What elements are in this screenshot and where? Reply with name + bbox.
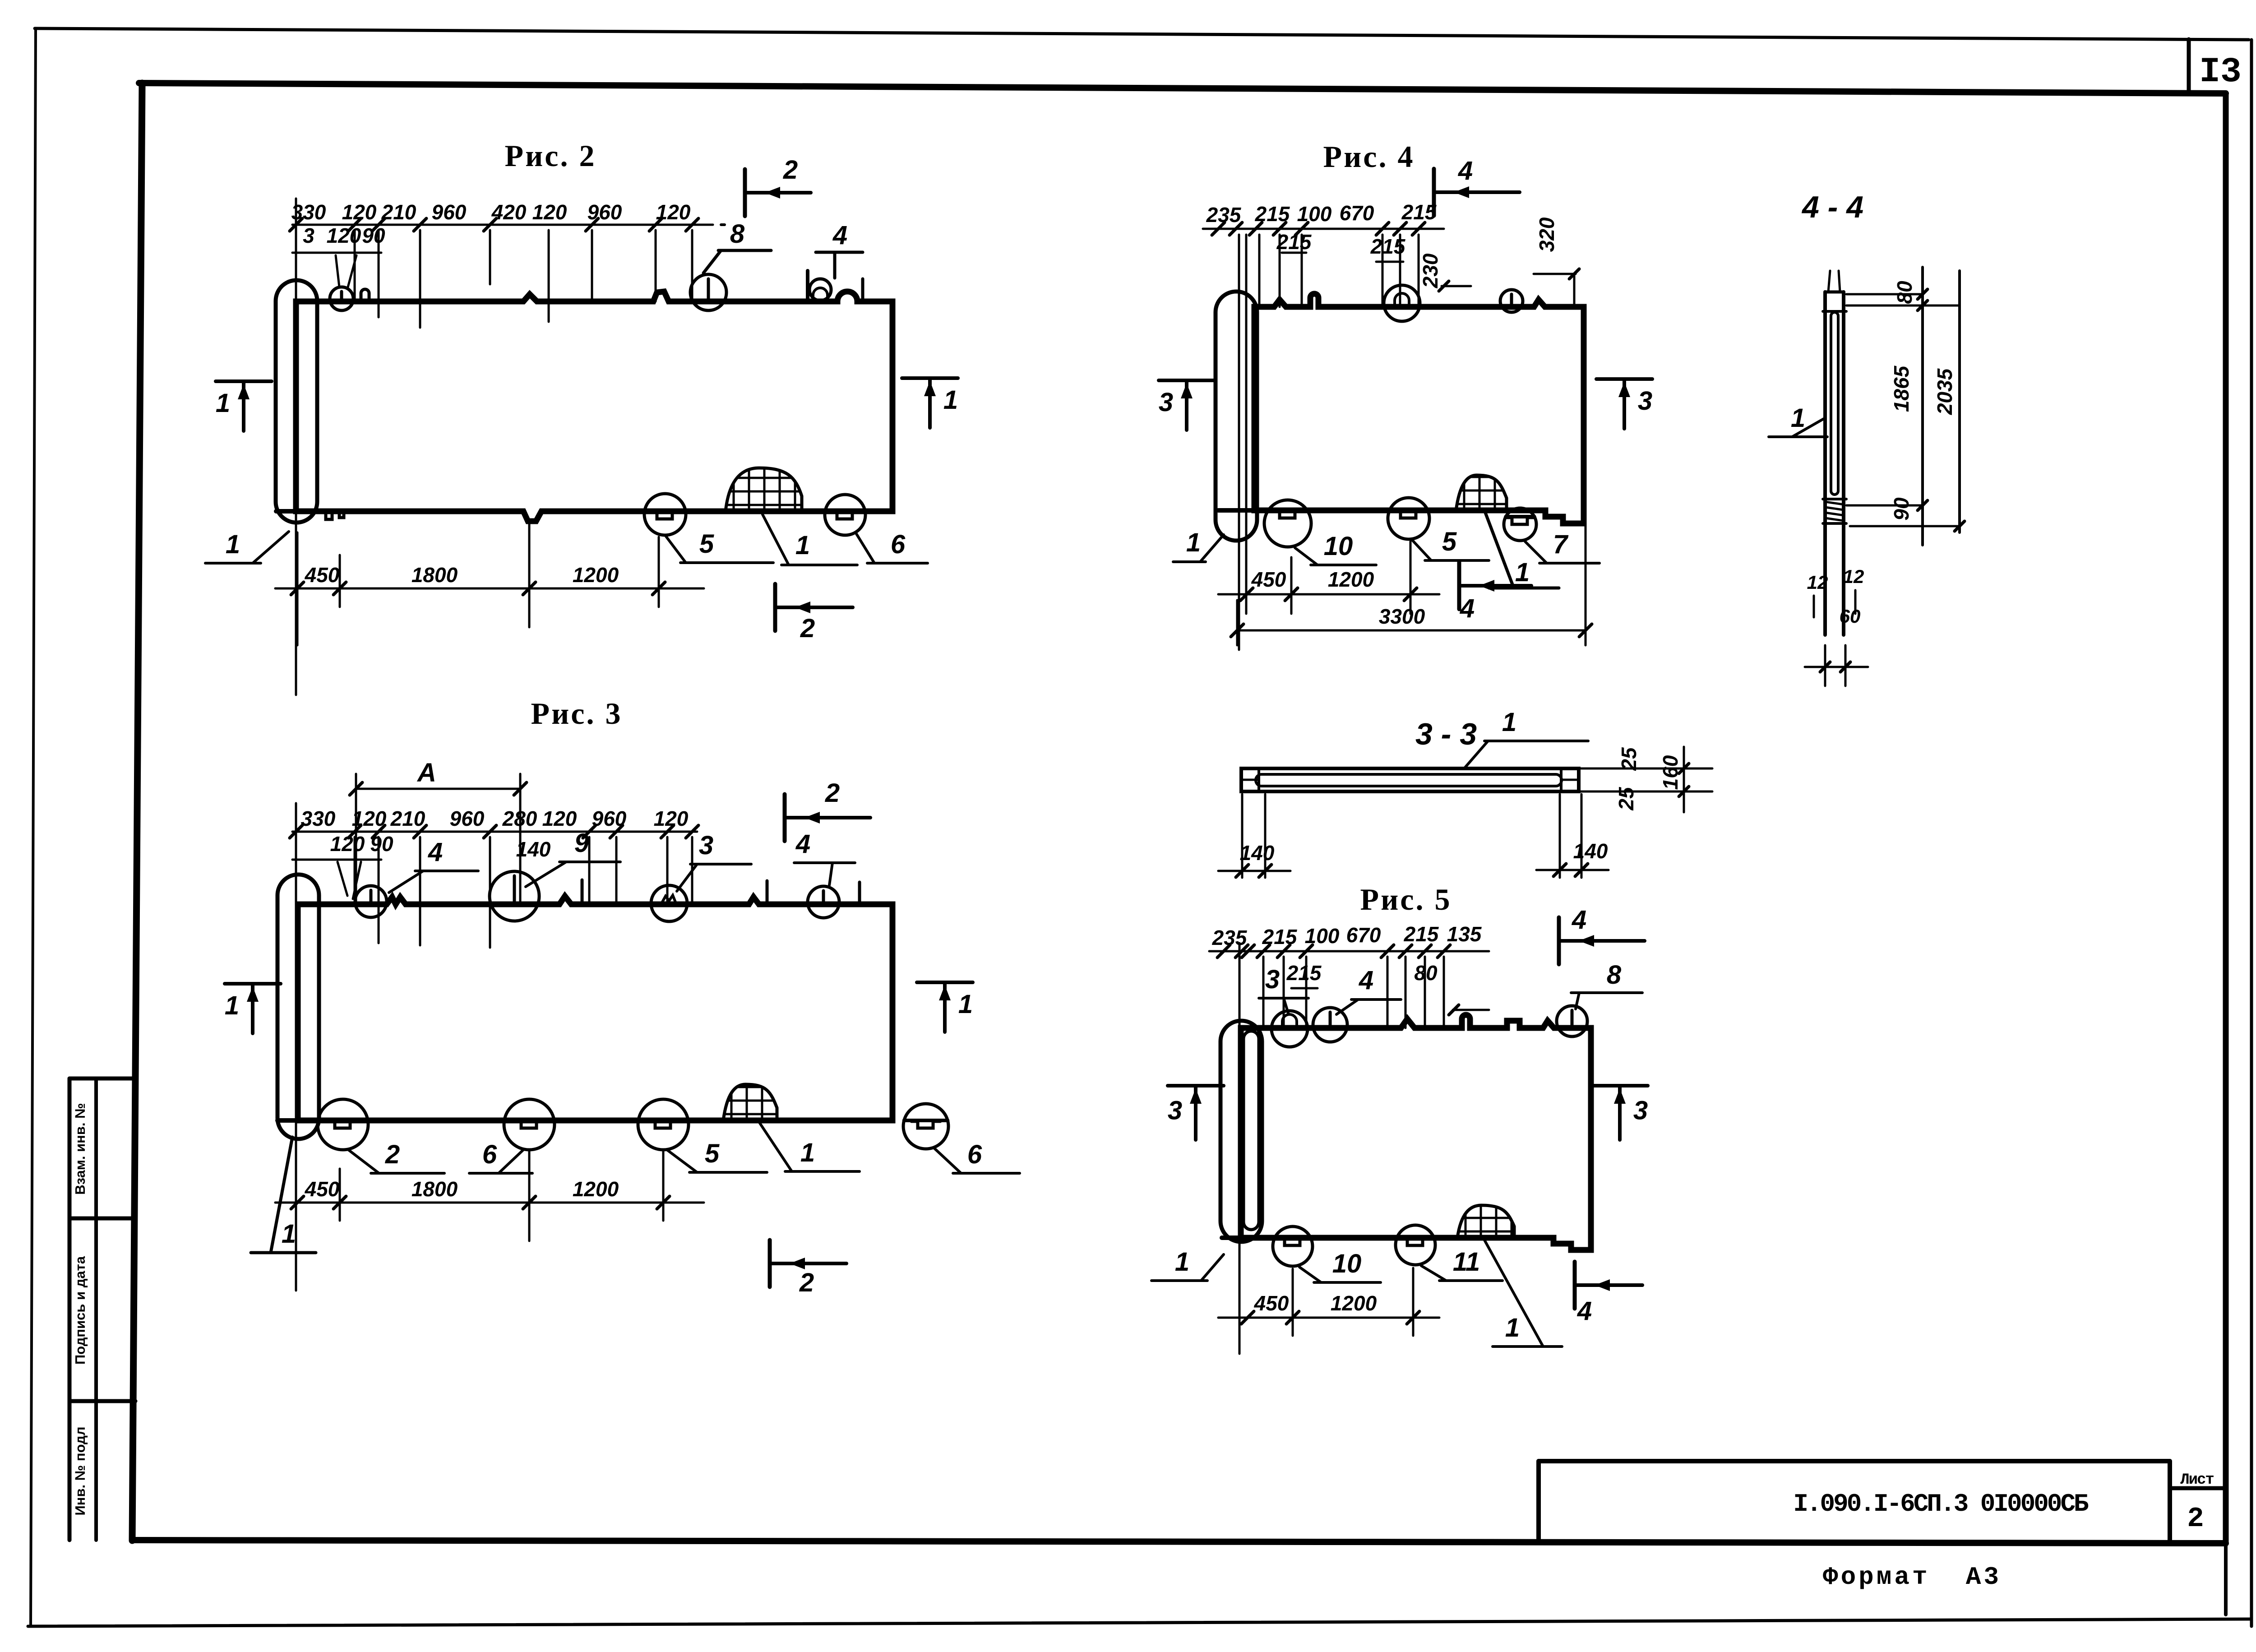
fig3 top circle 4a: [355, 886, 387, 917]
fig3 leader 1 hump: [758, 1120, 860, 1171]
svg-text:3: 3: [1265, 965, 1280, 994]
fig3 top circle 9: [490, 871, 539, 921]
fig3 section mark 2 top: [785, 778, 870, 841]
fig2 section mark 2 bottom: [775, 584, 853, 643]
svg-text:Лист: Лист: [2180, 1472, 2214, 1489]
fig4 crosshatch hump: [1456, 472, 1507, 510]
title block text 1.090.1-6СП.3 0I0000СБ: [1793, 1490, 2089, 1518]
sec44 dim verticals: [1923, 267, 1960, 545]
sec33 dim 140 left: [1218, 794, 1290, 878]
fig3 leader 1 bottom-left: [251, 1137, 316, 1253]
svg-text:6: 6: [967, 1140, 982, 1169]
svg-text:1: 1: [226, 530, 240, 559]
svg-text:1865: 1865: [1890, 365, 1913, 412]
svg-text:330: 330: [301, 807, 336, 830]
fig4 lifting loop capsule: [1216, 292, 1257, 541]
left stamp column boxes: [69, 1078, 135, 1540]
svg-text:4: 4: [428, 838, 443, 867]
frame right tail: [2224, 1542, 2228, 1615]
fig2 dim chain row1: [290, 199, 725, 695]
fig4 view mark 3 right: [1596, 379, 1652, 429]
fig2 top circle 4: [809, 279, 831, 301]
fig5 bottom circle 10: [1273, 1226, 1313, 1266]
sec44 title: [1801, 190, 1863, 224]
fig2 leader 8: [703, 219, 771, 273]
svg-text:210: 210: [390, 807, 425, 830]
sheet number box 13: [2189, 39, 2242, 93]
svg-text:450: 450: [305, 563, 340, 587]
svg-text:960: 960: [432, 200, 467, 224]
fig2 top stub right: [806, 271, 809, 301]
svg-text:80: 80: [1893, 281, 1916, 304]
svg-text:100: 100: [1305, 924, 1340, 948]
sec33 edge marks: [1241, 779, 1579, 781]
svg-text:320: 320: [1535, 217, 1558, 252]
fig4 leader 10: [1295, 532, 1376, 565]
fig5 panel outline: [1222, 1015, 1591, 1250]
fig5 section mark 4 bottom: [1575, 1262, 1642, 1326]
fig3 top stub: [582, 880, 860, 904]
title block Лист header: [2180, 1472, 2214, 1489]
fig4 bottom dim line: [1218, 541, 1439, 614]
fig5 dim row2: [1286, 961, 1489, 1015]
fig2 top circle 8: [690, 274, 726, 310]
fig3 leader 2: [348, 1140, 444, 1173]
fig2 leader 1 hump: [763, 514, 857, 565]
fig4 bottom circle 10: [1264, 500, 1311, 547]
svg-text:140: 140: [1573, 839, 1608, 863]
sec33 title: [1415, 717, 1477, 751]
svg-text:1200: 1200: [1331, 1291, 1377, 1315]
fig5 top circle 4: [1313, 1008, 1347, 1042]
svg-text:11: 11: [1453, 1247, 1480, 1277]
sec33 right dims: [1579, 747, 1712, 812]
svg-text:1: 1: [1186, 528, 1201, 557]
svg-text:5: 5: [1442, 527, 1457, 556]
fig4 top circle small: [1500, 290, 1523, 312]
fig5 view mark 3 right: [1592, 1086, 1648, 1140]
fig2 bottom dim line: [275, 523, 704, 645]
fig3 leader 5: [667, 1139, 767, 1172]
sec44 dim 1865: [1890, 365, 1913, 412]
svg-text:120: 120: [654, 807, 689, 830]
fig3 section mark 2 bottom: [770, 1240, 846, 1297]
svg-text:1800: 1800: [411, 563, 458, 587]
fig4 bottom circle 7: [1504, 508, 1536, 541]
fig5 bottom dim line: [1218, 1268, 1439, 1336]
fig3 bottom circle 6b: [903, 1104, 948, 1149]
svg-text:2: 2: [783, 155, 798, 185]
fig3 leader 4b: [794, 829, 855, 885]
svg-text:Формат А3: Формат А3: [1823, 1563, 2002, 1592]
fig4 overall dim 3300: [1231, 514, 1592, 645]
fig5 title: [1360, 882, 1452, 916]
svg-text:90: 90: [370, 832, 393, 856]
fig2 bottom left notch: [326, 511, 344, 519]
svg-text:Рис. 5: Рис. 5: [1360, 882, 1452, 916]
fig3 crosshatch hump: [723, 1082, 777, 1120]
sec33 leader 1: [1464, 708, 1588, 768]
fig4 top circle 5: [1384, 285, 1420, 321]
svg-text:1: 1: [795, 531, 810, 560]
sec44 dim 2035: [1933, 368, 1956, 415]
fig2 dim chain row2: [292, 224, 385, 289]
svg-text:1: 1: [1502, 708, 1516, 737]
fig3 leader 6a: [469, 1140, 532, 1173]
sec44 dim 80: [1846, 281, 1958, 310]
fig3 leader 6b: [934, 1140, 1020, 1173]
fig5 leader 1 hump: [1484, 1240, 1562, 1347]
svg-text:120: 120: [656, 200, 691, 224]
svg-text:2: 2: [799, 1268, 814, 1297]
svg-text:230: 230: [1419, 253, 1442, 288]
svg-text:4: 4: [832, 221, 847, 250]
fig3 leader 9: [526, 828, 620, 887]
svg-text:6: 6: [891, 530, 906, 559]
fig5 leader 8: [1571, 960, 1642, 1009]
fig3 top circle 4b: [808, 886, 839, 918]
svg-text:25: 25: [1614, 787, 1638, 811]
fig2 panel outline: [276, 292, 892, 521]
svg-text:12: 12: [1843, 566, 1864, 587]
svg-text:120: 120: [352, 807, 387, 830]
fig3 panel outline: [277, 896, 892, 1120]
fig2 top square stub: [361, 289, 369, 301]
fig5 section mark 4 top: [1559, 905, 1645, 964]
svg-text:4: 4: [1572, 905, 1586, 935]
title block sheet number 2: [2187, 1503, 2204, 1535]
svg-text:3 - 3: 3 - 3: [1415, 717, 1477, 751]
svg-text:140: 140: [1240, 841, 1275, 865]
fig3 bottom circle 5: [638, 1099, 689, 1150]
svg-text:2: 2: [825, 778, 840, 808]
svg-text:3300: 3300: [1379, 605, 1425, 628]
sec44 bearing hatch: [1825, 502, 1844, 521]
fig5 top circle 8: [1557, 1006, 1587, 1037]
fig4 dim 320 rotated: [1534, 217, 1579, 307]
svg-text:1: 1: [800, 1138, 815, 1167]
fig3 top circle 3: [651, 885, 687, 921]
svg-text:4 - 4: 4 - 4: [1801, 190, 1863, 224]
svg-text:3: 3: [1638, 386, 1652, 416]
svg-text:215: 215: [1255, 202, 1290, 226]
svg-text:235: 235: [1212, 926, 1248, 949]
svg-text:280: 280: [502, 807, 537, 830]
svg-text:1: 1: [1515, 558, 1530, 587]
sec33 slab outline: [1241, 768, 1579, 791]
fig3 leader 4a: [389, 838, 478, 893]
fig2 leader 6: [856, 530, 928, 563]
svg-text:10: 10: [1324, 532, 1353, 561]
svg-text:Инв. № подл: Инв. № подл: [72, 1426, 88, 1515]
svg-text:120: 120: [532, 200, 567, 224]
svg-text:Рис. 3: Рис. 3: [531, 696, 623, 731]
svg-text:4: 4: [1458, 156, 1473, 185]
svg-text:9: 9: [574, 828, 589, 858]
svg-text:3: 3: [1168, 1096, 1182, 1125]
fig2 view mark 1 left: [216, 381, 272, 431]
fig3 bottom circle 2: [318, 1099, 368, 1150]
svg-text:90: 90: [1890, 497, 1913, 521]
svg-text:120: 120: [542, 807, 577, 830]
svg-text:4: 4: [795, 829, 810, 859]
svg-text:12: 12: [1807, 572, 1828, 593]
fig3 leader 3: [677, 831, 751, 891]
svg-text:6: 6: [482, 1140, 497, 1169]
fig5 bottom circle 11: [1396, 1225, 1435, 1265]
fig5 leader 3: [1259, 965, 1308, 1014]
fig5 leader 11: [1421, 1247, 1502, 1281]
svg-text:450: 450: [1254, 1291, 1289, 1315]
svg-text:80: 80: [1414, 961, 1438, 985]
svg-text:2: 2: [385, 1140, 400, 1169]
fig5 capsule inner line: [1239, 943, 1241, 1354]
svg-text:3: 3: [303, 224, 314, 247]
svg-text:670: 670: [1346, 923, 1381, 947]
fig4 section mark 4 top: [1434, 156, 1520, 216]
svg-text:A: A: [416, 758, 436, 787]
fig3 dim chain row1: [290, 803, 698, 1291]
fig5 end slot: [1244, 1031, 1259, 1230]
fig4 section mark 4 bottom: [1459, 562, 1531, 623]
fig5 leader 4: [1336, 966, 1401, 1014]
svg-text:1200: 1200: [573, 1177, 619, 1201]
svg-text:450: 450: [1251, 568, 1286, 591]
svg-text:3: 3: [1159, 388, 1173, 417]
svg-text:120: 120: [342, 200, 377, 224]
fig4 title: [1323, 139, 1415, 174]
fig5 view mark 3 left: [1168, 1086, 1224, 1140]
fig3 bottom dim line: [275, 1150, 704, 1241]
sec44 dim 12 12: [1807, 566, 1864, 617]
fig2 top tick right: [861, 279, 864, 301]
svg-text:120: 120: [327, 224, 361, 247]
fig2 section mark 2 top: [745, 155, 811, 216]
fig4 bottom circle 5b: [1388, 498, 1429, 539]
svg-text:1200: 1200: [573, 563, 619, 587]
fig3 title: [531, 696, 623, 731]
fig2 view mark 1 right: [902, 378, 958, 428]
fig3 dim chain row2: [292, 832, 551, 899]
fig2 bottom circle 6: [825, 495, 865, 535]
svg-text:5: 5: [705, 1139, 720, 1168]
svg-text:2: 2: [2187, 1503, 2204, 1535]
svg-text:8: 8: [1607, 960, 1622, 990]
svg-text:215: 215: [1262, 925, 1298, 949]
fig2 leader 4 top: [816, 221, 863, 278]
fig4 leader 1 bottom-left: [1173, 528, 1224, 562]
svg-text:1: 1: [943, 385, 958, 415]
sec33 dim 140 right: [1536, 794, 1609, 878]
svg-text:4: 4: [1577, 1296, 1592, 1326]
svg-text:7: 7: [1553, 530, 1569, 559]
fig2 leader 5: [665, 529, 773, 563]
svg-text:25: 25: [1617, 747, 1641, 771]
svg-text:I3: I3: [2199, 52, 2242, 92]
fig5 lifting loop capsule: [1220, 1021, 1262, 1242]
fig3 lifting loop capsule: [277, 875, 319, 1139]
fig4 view mark 3 left: [1159, 380, 1215, 430]
svg-text:60: 60: [1840, 606, 1861, 627]
svg-text:8: 8: [730, 219, 745, 249]
svg-text:3: 3: [1633, 1096, 1648, 1125]
svg-text:1: 1: [958, 990, 973, 1019]
svg-text:2: 2: [800, 614, 815, 643]
fig5 top circle 3: [1271, 1011, 1308, 1047]
fig4 leader 5: [1412, 527, 1489, 560]
svg-text:450: 450: [305, 1177, 340, 1201]
svg-text:2035: 2035: [1933, 368, 1956, 415]
fig3 dim A: [350, 758, 527, 904]
fig4 panel outline: [1254, 294, 1584, 523]
sec44 leader 1: [1769, 403, 1827, 437]
fig2 title: [505, 139, 596, 173]
sec44 dim 60: [1805, 606, 1868, 686]
svg-text:120: 120: [330, 832, 365, 856]
svg-text:Взам. инв. №: Взам. инв. №: [72, 1103, 88, 1194]
svg-text:4: 4: [1460, 594, 1475, 623]
svg-text:Подпись и дата: Подпись и дата: [72, 1256, 88, 1365]
svg-text:1: 1: [225, 991, 239, 1020]
svg-text:90: 90: [362, 224, 385, 247]
svg-text:960: 960: [587, 200, 622, 224]
svg-text:1: 1: [1175, 1247, 1189, 1277]
svg-text:960: 960: [592, 807, 627, 830]
svg-text:1200: 1200: [1328, 568, 1374, 591]
svg-text:3: 3: [699, 831, 713, 860]
svg-text:Рис. 2: Рис. 2: [505, 139, 596, 173]
svg-text:І.090.І-6СП.3 0І0000СБ: І.090.І-6СП.3 0І0000СБ: [1793, 1490, 2089, 1518]
fig4 leader 7: [1525, 530, 1600, 563]
svg-text:215: 215: [1370, 235, 1406, 258]
fig4 capsule inner line: [1239, 235, 1246, 650]
fig2 top circle 3: [330, 287, 353, 310]
svg-text:160: 160: [1659, 755, 1682, 790]
svg-text:210: 210: [381, 200, 416, 224]
fig2 crosshatch hump: [726, 465, 802, 511]
fig5 crosshatch hump: [1457, 1203, 1514, 1238]
svg-text:235: 235: [1206, 203, 1242, 227]
fig2 lifting loop capsule: [276, 280, 317, 523]
svg-text:215: 215: [1286, 961, 1322, 985]
fig2 leader 1 bottom-left: [205, 530, 289, 563]
svg-text:5: 5: [699, 529, 714, 559]
svg-text:1: 1: [282, 1219, 296, 1249]
sec44 inner slot: [1831, 312, 1838, 495]
sec44 dim 90: [1846, 497, 1965, 531]
svg-text:215: 215: [1404, 922, 1439, 946]
svg-text:4: 4: [1359, 966, 1373, 995]
fig5 dim chain: [1209, 922, 1489, 1028]
fig3 view mark 1 right: [917, 982, 973, 1032]
svg-text:140: 140: [516, 838, 551, 861]
fig4 dim 215 second row a: [1276, 230, 1312, 254]
fig5 leader 1 bottom-left: [1151, 1247, 1224, 1281]
svg-text:1800: 1800: [411, 1177, 458, 1201]
sec44 bar outline: [1823, 292, 1846, 635]
svg-text:1: 1: [216, 389, 230, 418]
fig4 dim 215 second row b: [1370, 235, 1406, 262]
fig3 bottom circle 6a: [504, 1099, 555, 1150]
fig5 leader 10: [1299, 1249, 1381, 1282]
svg-text:1: 1: [1791, 403, 1805, 433]
format note: [1823, 1563, 2002, 1592]
fig4 leader 1 hump: [1484, 510, 1559, 588]
svg-text:330: 330: [291, 200, 326, 224]
svg-text:960: 960: [450, 807, 485, 830]
svg-text:135: 135: [1447, 922, 1482, 946]
fig4 dim 230 rotated: [1419, 253, 1471, 291]
svg-text:100: 100: [1297, 202, 1332, 226]
svg-text:1: 1: [1505, 1313, 1520, 1342]
svg-text:215: 215: [1401, 200, 1437, 224]
svg-text:215: 215: [1276, 230, 1312, 254]
fig4 dim chain: [1203, 200, 1444, 307]
svg-text:670: 670: [1340, 201, 1374, 225]
svg-text:Рис. 4: Рис. 4: [1323, 139, 1415, 174]
fig3 view mark 1 left: [225, 984, 281, 1033]
svg-text:420: 420: [491, 200, 527, 224]
sec44 top whiskers: [1828, 271, 1840, 292]
title block box: [1539, 1461, 2226, 1540]
svg-text:10: 10: [1332, 1249, 1362, 1278]
fig2 bottom circle 5: [644, 494, 686, 535]
